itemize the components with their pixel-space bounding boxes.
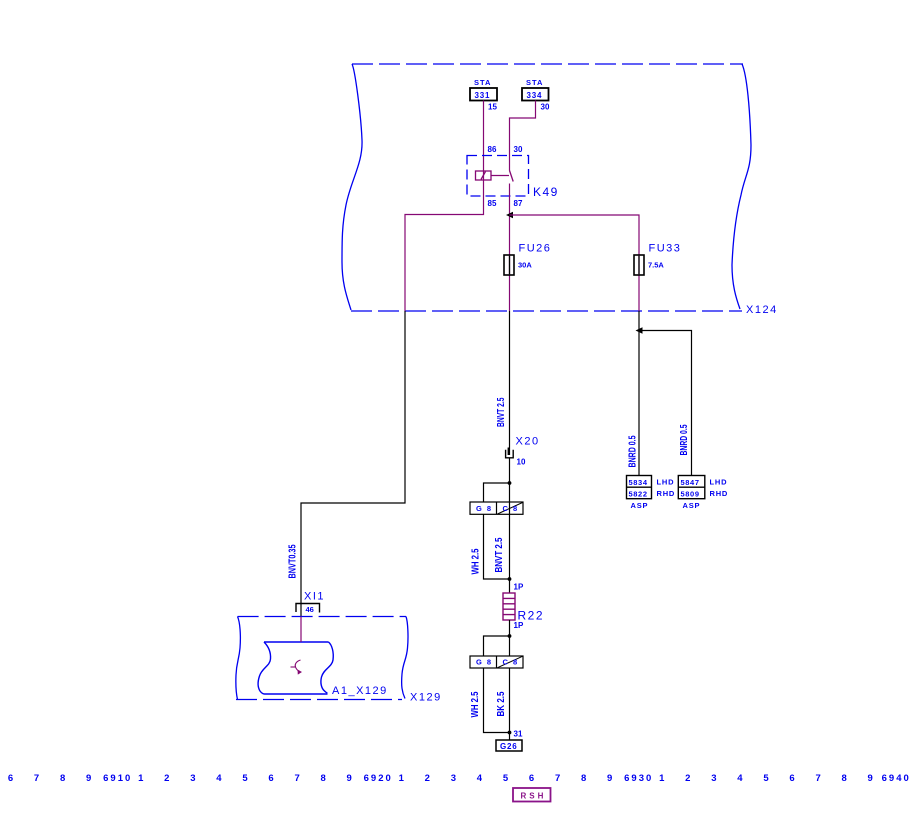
wire R22 to lower splice: [509, 620, 511, 656]
wire left leg of upper splice: [484, 515, 510, 580]
svg-text:2: 2: [425, 773, 432, 784]
svg-text:46: 46: [306, 605, 314, 614]
wire FU33 to option boxes: [638, 311, 640, 476]
svg-text:5834: 5834: [629, 478, 648, 487]
harness box X124 (dashed boundary with wavy ends): [342, 64, 751, 311]
svg-text:87: 87: [514, 199, 523, 208]
svg-text:C 8: C 8: [503, 504, 519, 513]
wire XI1 pin 46 into A1_X129: [300, 617, 302, 643]
svg-text:ASP: ASP: [631, 501, 649, 510]
resistor R22: [503, 593, 515, 620]
svg-text:G26: G26: [500, 742, 518, 751]
wire K49 term 85 branch to XI1: [301, 311, 405, 617]
wire STA331 to K49 coil term 86, out term 85 to X124 boundary: [405, 101, 484, 312]
svg-text:ASP: ASP: [683, 501, 701, 510]
svg-text:RHD: RHD: [710, 489, 729, 498]
svg-text:7: 7: [34, 773, 41, 784]
svg-text:LHD: LHD: [657, 478, 675, 487]
svg-text:1P: 1P: [514, 621, 524, 630]
relay K49 contact arm: [510, 171, 514, 182]
svg-text:7.5A: 7.5A: [648, 261, 664, 270]
svg-text:G 8: G 8: [476, 658, 493, 667]
relay K49 coil: [476, 171, 510, 180]
svg-text:A1_X129: A1_X129: [332, 685, 388, 697]
fuse FU26: [504, 255, 514, 275]
splice box G8 C8 upper: [470, 502, 523, 514]
svg-text:BK 2.5: BK 2.5: [495, 691, 507, 716]
svg-text:6: 6: [268, 773, 275, 784]
svg-text:86: 86: [488, 145, 497, 154]
ground G26: [496, 740, 522, 751]
svg-text:FU26: FU26: [519, 243, 552, 255]
option box 5847 5809: [678, 476, 705, 499]
svg-text:5822: 5822: [629, 490, 648, 499]
svg-text:8: 8: [60, 773, 67, 784]
svg-text:7: 7: [815, 773, 822, 784]
svg-text:6: 6: [529, 773, 536, 784]
svg-text:30: 30: [541, 103, 550, 112]
svg-text:6940: 6940: [882, 773, 911, 784]
svg-text:BNRD 0.5: BNRD 0.5: [678, 424, 690, 455]
wire branch to RHD option box: [639, 331, 692, 476]
svg-text:FU33: FU33: [649, 243, 682, 255]
svg-text:2: 2: [164, 773, 171, 784]
svg-text:15: 15: [488, 103, 497, 112]
terminal symbol inside A1_X129: [291, 660, 303, 675]
svg-text:RSH: RSH: [521, 792, 547, 801]
svg-text:10: 10: [517, 458, 526, 467]
connector STA 334: [522, 78, 549, 101]
svg-text:WH 2.5: WH 2.5: [469, 548, 481, 574]
svg-text:8: 8: [841, 773, 848, 784]
svg-text:334: 334: [527, 91, 543, 100]
svg-text:STA: STA: [474, 78, 491, 87]
junction node below R22: [508, 634, 512, 638]
junction arrow at option branch: [636, 327, 643, 333]
svg-text:X124: X124: [746, 304, 778, 316]
wire branch to lower splice left: [484, 636, 510, 656]
svg-text:5: 5: [763, 773, 770, 784]
svg-text:1: 1: [659, 773, 666, 784]
module A1_X129 (wavy box): [258, 642, 333, 694]
svg-text:X20: X20: [516, 436, 540, 448]
svg-text:9: 9: [347, 773, 354, 784]
svg-text:6: 6: [789, 773, 796, 784]
svg-text:8: 8: [581, 773, 588, 784]
wire left leg to ground node: [484, 668, 510, 733]
junction node: [508, 481, 512, 485]
svg-text:BNVT 2.5: BNVT 2.5: [493, 537, 505, 572]
svg-text:8: 8: [320, 773, 327, 784]
svg-text:3: 3: [190, 773, 197, 784]
wire right leg to ground G26: [509, 668, 511, 740]
svg-text:9: 9: [607, 773, 614, 784]
svg-text:BNRD 0.5: BNRD 0.5: [626, 435, 638, 467]
svg-text:3: 3: [451, 773, 458, 784]
svg-text:6: 6: [8, 773, 15, 784]
svg-text:1P: 1P: [514, 583, 524, 592]
svg-text:7: 7: [555, 773, 562, 784]
svg-text:7: 7: [294, 773, 301, 784]
svg-text:85: 85: [488, 199, 497, 208]
svg-text:30A: 30A: [518, 261, 532, 270]
splice box G8 C8 lower: [470, 656, 523, 668]
svg-text:3: 3: [711, 773, 718, 784]
option box 5834 5822: [627, 476, 652, 499]
current track label RSH: [513, 788, 551, 802]
svg-text:31: 31: [514, 730, 523, 739]
wire K49 term 87 through FU26 to X124 boundary: [509, 184, 511, 312]
svg-text:4: 4: [216, 773, 223, 784]
svg-text:5: 5: [242, 773, 249, 784]
wire FU26 to connector X20: [509, 311, 511, 455]
svg-text:4: 4: [737, 773, 744, 784]
svg-text:6910: 6910: [103, 773, 132, 784]
wire X20 to R22: [509, 459, 511, 594]
svg-text:K49: K49: [533, 185, 559, 199]
svg-text:6920: 6920: [364, 773, 393, 784]
svg-text:9: 9: [86, 773, 93, 784]
junction arrow at FU branch node: [506, 212, 513, 218]
svg-text:G 8: G 8: [476, 504, 493, 513]
svg-text:WH 2.5: WH 2.5: [469, 691, 481, 717]
connector X20: [506, 448, 514, 458]
svg-text:9: 9: [868, 773, 875, 784]
svg-text:X129: X129: [410, 692, 442, 704]
svg-text:1: 1: [399, 773, 406, 784]
junction node at ground: [508, 731, 512, 735]
svg-text:30: 30: [514, 145, 523, 154]
connector STA 331: [470, 78, 497, 101]
svg-text:5809: 5809: [681, 490, 700, 499]
fuse FU33: [634, 255, 644, 275]
svg-text:XI1: XI1: [304, 591, 325, 603]
connector XI1: [296, 604, 320, 613]
svg-text:6930: 6930: [624, 773, 653, 784]
wire branch to FU33: [510, 215, 640, 311]
wire STA334 to K49 term 30: [510, 101, 536, 171]
svg-text:BNVT0.35: BNVT0.35: [287, 544, 299, 578]
ruler track numbers: [8, 773, 911, 784]
svg-text:5: 5: [503, 773, 510, 784]
svg-text:C 8: C 8: [503, 658, 519, 667]
relay K49 dashed box: [467, 156, 529, 197]
svg-text:331: 331: [475, 91, 491, 100]
svg-text:5847: 5847: [681, 478, 700, 487]
junction node above R22: [508, 577, 512, 581]
svg-text:RHD: RHD: [657, 489, 676, 498]
svg-text:2: 2: [685, 773, 692, 784]
wire branch to upper splice: [484, 483, 510, 502]
svg-text:4: 4: [477, 773, 484, 784]
svg-text:BNVT 2.5: BNVT 2.5: [495, 397, 507, 427]
harness box X129 (dashed boundary with wavy ends): [236, 617, 408, 700]
svg-text:1: 1: [138, 773, 145, 784]
svg-text:LHD: LHD: [710, 478, 728, 487]
svg-text:STA: STA: [526, 78, 543, 87]
